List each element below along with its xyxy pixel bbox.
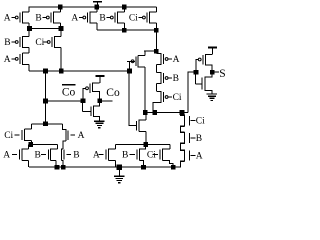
power VDD symbol top bbox=[93, 2, 102, 7]
wire node Cob bbox=[29, 70, 129, 72]
svg-text:Co: Co bbox=[62, 86, 76, 98]
junction X2 bbox=[154, 49, 159, 54]
nmos N3 gate A bbox=[3, 144, 28, 167]
svg-text:B: B bbox=[73, 151, 79, 161]
svg-text:B: B bbox=[173, 74, 179, 84]
pmos P4 gate B bbox=[99, 7, 124, 23]
wire Cob to inv bbox=[46, 100, 83, 102]
junction m2 bbox=[143, 142, 148, 147]
gnd rail bbox=[29, 166, 181, 168]
svg-text:Ci: Ci bbox=[4, 131, 13, 141]
svg-text:B: B bbox=[196, 134, 202, 144]
wire P2 drain bbox=[59, 23, 61, 28]
wire P5 lead bbox=[150, 22, 157, 24]
wire P3 lead bbox=[90, 22, 97, 24]
wire m2 bbox=[115, 143, 170, 145]
wire Cob nmos top bbox=[31, 123, 62, 125]
nmos N7 gate B bbox=[122, 147, 146, 167]
pmos U-Co-inv bbox=[86, 83, 100, 99]
wire P5 drain bbox=[155, 23, 157, 30]
pmos P1 gate A bbox=[4, 7, 29, 23]
wire m1 drop bbox=[57, 144, 59, 149]
svg-text:B: B bbox=[35, 13, 41, 23]
pmos P7 gate Ci bbox=[35, 29, 61, 71]
svg-text:B: B bbox=[99, 13, 105, 23]
wire N2-N5 link bbox=[62, 148, 64, 150]
junction Cob-2 bbox=[59, 69, 64, 74]
label Co bbox=[106, 87, 120, 99]
svg-text:Ci: Ci bbox=[35, 38, 44, 48]
ground rail symbol bbox=[114, 167, 124, 183]
wire Cob gate route bbox=[129, 71, 137, 126]
wire P1 lead bbox=[22, 22, 29, 24]
junction vdd-P2 bbox=[58, 5, 63, 10]
nmos N12 gate A bbox=[180, 150, 203, 168]
junction Cob-4 bbox=[43, 99, 48, 104]
junction Cob-3 bbox=[127, 69, 132, 74]
pmos P6 gate B bbox=[4, 29, 29, 54]
wire Co-inv gate-p bbox=[83, 88, 86, 101]
nmos N2 gate A mirror bbox=[62, 124, 84, 149]
wire Cob drop bbox=[45, 71, 47, 101]
wire S-inv gate-n bbox=[195, 72, 197, 83]
svg-text:A: A bbox=[71, 13, 78, 23]
junction m1 bbox=[28, 142, 33, 147]
wire Cob drop2 bbox=[45, 101, 47, 124]
pmos P12 gate Ci bbox=[153, 91, 182, 112]
svg-text:A: A bbox=[196, 152, 203, 162]
wire X2-left bbox=[144, 50, 156, 52]
svg-text:Co: Co bbox=[106, 87, 120, 99]
svg-text:A: A bbox=[173, 55, 180, 65]
junction Co-inv in bbox=[81, 98, 86, 103]
nmos D-S-inv bbox=[196, 75, 212, 94]
pmos P8 gate A bbox=[4, 53, 29, 71]
wire P1 drain bbox=[28, 23, 30, 28]
svg-text:A: A bbox=[78, 131, 85, 141]
nmos N4 gate B bbox=[35, 149, 58, 168]
label Co_bar bbox=[62, 84, 76, 98]
junction Co out bbox=[97, 98, 102, 103]
ground Co-inv bbox=[94, 121, 104, 127]
junction Sbar-1 bbox=[143, 110, 148, 115]
pmos P11 gate B bbox=[156, 72, 179, 91]
junction vdd-P4 bbox=[122, 5, 127, 10]
svg-text:Ci: Ci bbox=[173, 93, 182, 103]
wire node Sbar bbox=[145, 111, 188, 113]
wire P4 drain bbox=[123, 23, 125, 30]
wire X down bbox=[155, 30, 157, 51]
junction Cob-5 bbox=[43, 121, 48, 126]
nmos N1 gate Ci bbox=[4, 124, 31, 145]
junction S-inv in bbox=[194, 70, 199, 75]
junction gnd-N8 bbox=[171, 165, 176, 170]
junction gnd rail bbox=[117, 165, 122, 170]
wire Sbar riser bbox=[188, 72, 194, 112]
svg-text:Ci: Ci bbox=[129, 13, 138, 23]
nmos N8 gate Ci bbox=[147, 144, 173, 167]
wire P9 gate route bbox=[129, 61, 135, 71]
svg-text:B: B bbox=[122, 151, 128, 161]
svg-text:Ci: Ci bbox=[196, 117, 205, 127]
nmos D-Co-inv bbox=[83, 103, 100, 121]
wire S-inv gate-p bbox=[196, 60, 198, 73]
svg-text:A: A bbox=[93, 151, 100, 161]
wire m1 bbox=[31, 143, 58, 145]
junction X-P4 bbox=[122, 28, 127, 33]
wire S out dash bbox=[215, 71, 219, 73]
junction gnd-N5 bbox=[61, 165, 66, 170]
junction gnd-N7 bbox=[141, 165, 146, 170]
junction n1-b bbox=[59, 26, 64, 31]
junction Sbar-2 bbox=[152, 110, 157, 115]
pmos P5 gate Ci bbox=[129, 7, 157, 23]
svg-text:A: A bbox=[4, 55, 11, 65]
nmos N9 gate Cob bbox=[129, 112, 146, 144]
ground S-inv bbox=[207, 94, 217, 100]
pmos P3 gate A bbox=[71, 7, 96, 23]
power VDD S-inv bbox=[208, 47, 217, 54]
wire P4 lead bbox=[117, 22, 124, 24]
wire Co out bbox=[100, 100, 113, 102]
svg-text:A: A bbox=[3, 151, 10, 161]
power VDD Co-inv bbox=[95, 76, 104, 83]
junction vdd-P3 vdd-sym bbox=[94, 5, 99, 10]
svg-text:B: B bbox=[4, 38, 10, 48]
svg-text:S: S bbox=[219, 68, 225, 80]
svg-text:B: B bbox=[35, 151, 41, 161]
wire node X bbox=[97, 29, 157, 31]
nmos N5 gate B mirror bbox=[62, 149, 80, 168]
junction Sbar-3 bbox=[180, 110, 185, 115]
wire P2 lead bbox=[53, 22, 60, 24]
junction gnd-N4 bbox=[55, 165, 60, 170]
svg-text:A: A bbox=[4, 13, 11, 23]
wire Co-inv gate-n bbox=[82, 101, 84, 111]
junction X corner bbox=[154, 28, 159, 33]
pmos P9 gate Cob bbox=[127, 51, 145, 112]
vdd rail bbox=[29, 6, 157, 8]
pmos U-S-inv bbox=[198, 54, 212, 70]
pmos P2 gate B bbox=[35, 7, 60, 23]
label S bbox=[219, 68, 225, 80]
svg-text:Ci: Ci bbox=[147, 151, 156, 161]
junction S out bbox=[210, 70, 215, 75]
nmos N10 gate Ci bbox=[180, 112, 205, 131]
wire P3 drain bbox=[96, 23, 98, 30]
wire node n1 bbox=[29, 28, 61, 30]
junction n1-a bbox=[27, 26, 32, 31]
nmos N11 gate B bbox=[180, 132, 202, 150]
pmos P10 gate A bbox=[156, 51, 179, 72]
junction Cob-1 bbox=[43, 69, 48, 74]
nmos N6 gate A bbox=[93, 144, 115, 167]
